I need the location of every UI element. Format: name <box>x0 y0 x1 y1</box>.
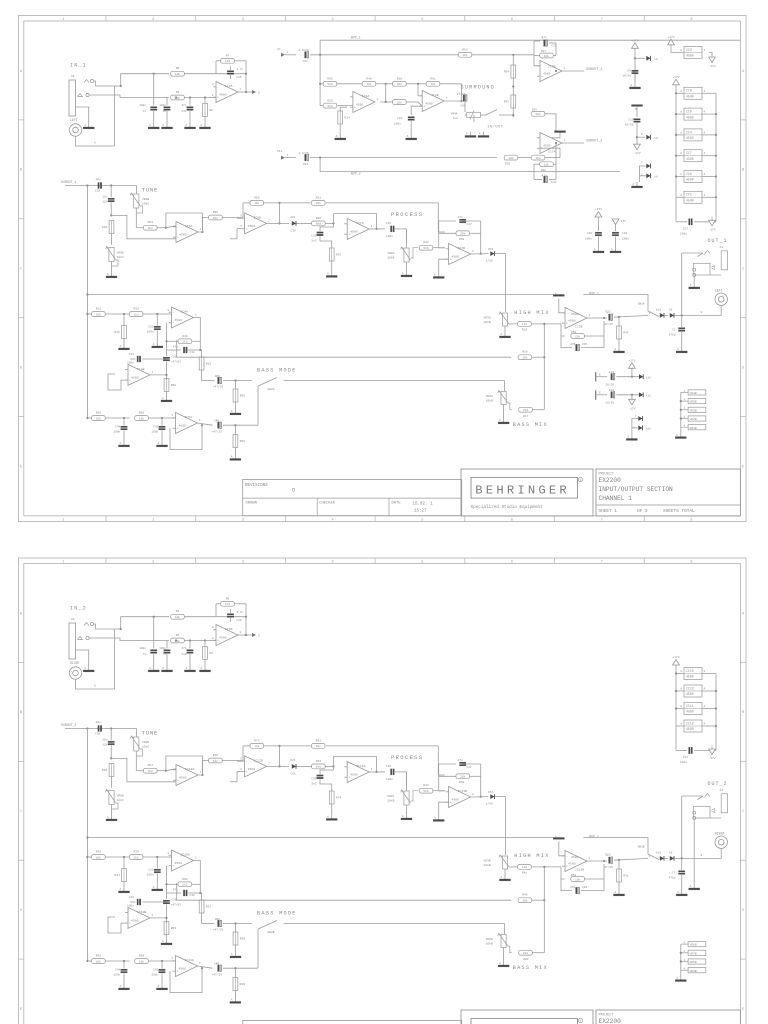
junction C23 <box>631 376 633 378</box>
op-amp IC6A <box>173 222 202 243</box>
svg-text:C39: C39 <box>171 356 176 359</box>
svg-text:4.7n: 4.7n <box>237 68 244 71</box>
ground C44 <box>119 441 130 447</box>
wire long vertical left bus <box>86 729 88 962</box>
wire jack sleeve to ground <box>76 107 89 123</box>
ground decoupling 2 <box>610 247 621 253</box>
ground C43 <box>157 441 168 447</box>
op-amp IC3A <box>212 82 242 103</box>
svg-text:R72: R72 <box>254 739 260 742</box>
junction +17V tap <box>634 57 636 59</box>
power +17V arrow decoupling <box>595 208 602 221</box>
svg-text:4580: 4580 <box>350 230 358 234</box>
potentiometer VR8D <box>131 736 150 771</box>
wire minus riser <box>534 56 540 66</box>
resistor R42 <box>312 739 445 775</box>
svg-text:TUNE: TUNE <box>142 730 158 737</box>
svg-text:X11: X11 <box>646 428 651 431</box>
svg-text:16/50: 16/50 <box>605 382 614 386</box>
svg-text:R28: R28 <box>316 217 322 220</box>
resistor R22 <box>419 241 445 250</box>
resistor R18 <box>518 351 544 360</box>
wire to op-amp minus <box>166 769 176 771</box>
wire op-amp out to R96 <box>198 218 209 233</box>
electrolytic C62 4.7/25 <box>298 48 458 63</box>
svg-text:C7: C7 <box>672 329 676 332</box>
svg-text:VR2B: VR2B <box>690 418 697 421</box>
wire to op-amp plus input <box>111 215 176 238</box>
ground C12 <box>185 666 196 672</box>
label IC5B <box>571 312 583 329</box>
svg-text:VR3A: VR3A <box>484 317 491 320</box>
svg-text:+47/63: +47/63 <box>171 359 182 363</box>
wire IC7B plus to ground <box>439 259 449 272</box>
svg-text:R5: R5 <box>176 634 180 637</box>
svg-text:IC7B: IC7B <box>458 246 466 250</box>
ground R38 <box>230 952 241 958</box>
ground R24 <box>335 134 346 140</box>
wire connector loop <box>76 629 115 689</box>
resistor R2 <box>203 98 213 124</box>
svg-text:R20: R20 <box>505 163 510 166</box>
capacitor C53 100n series <box>386 765 407 785</box>
electrolytic C59 47/25 series <box>202 918 252 932</box>
wire IC5B out <box>587 860 607 862</box>
ground IC5B minus <box>553 293 565 324</box>
svg-text:10kC: 10kC <box>117 798 124 802</box>
wire bass-mode to bass mix <box>284 380 505 382</box>
title block outer box (page 2, partially cut at canvas bottom) <box>461 1010 740 1024</box>
switch SW2B lever <box>258 921 277 935</box>
electrolytic C50 47/25 series <box>202 375 252 389</box>
wire R10 feed <box>87 960 91 962</box>
resistor R24 vertical to ground <box>338 107 350 134</box>
junction feedback2 <box>199 892 201 894</box>
potentiometer VR3B <box>484 855 518 875</box>
svg-text:X11: X11 <box>656 852 661 855</box>
ground VR8C <box>401 814 412 820</box>
svg-text:4580: 4580 <box>686 136 694 140</box>
capacitor C35 3n3 <box>311 223 333 248</box>
svg-text:4580: 4580 <box>543 72 551 76</box>
junction IC4A minus node <box>156 856 158 858</box>
junction IC6B out <box>278 765 280 767</box>
svg-text:470p: 470p <box>669 334 676 337</box>
inverted ground C10 <box>632 105 643 117</box>
feedback capacitor C54 47n <box>439 759 481 791</box>
svg-text:-17V: -17V <box>708 228 715 231</box>
junction R10 row <box>86 960 88 962</box>
svg-text:4580: 4580 <box>179 424 187 428</box>
svg-text:20k: 20k <box>316 201 321 205</box>
electrolytic C10 10/50 <box>625 119 640 138</box>
svg-text:6: 6 <box>258 92 260 95</box>
svg-text:-: - <box>177 768 179 772</box>
capacitor C32 100n <box>394 106 422 134</box>
svg-text:47n: 47n <box>181 104 186 107</box>
svg-text:C27: C27 <box>683 756 688 759</box>
wire IC5A out <box>198 966 213 968</box>
op-amp IC4A <box>167 307 197 328</box>
capacitor C4 470p <box>669 858 685 890</box>
junction IC7B out <box>480 253 482 255</box>
rail bar E2 <box>596 390 601 399</box>
resistor R20 10k <box>504 155 531 165</box>
switch SW1A <box>638 303 659 317</box>
output jack X4 <box>698 789 728 813</box>
trimmer connector VR5B <box>681 959 706 964</box>
junction R2 node <box>204 639 206 641</box>
junction op-amp out <box>201 231 203 233</box>
svg-text:IC7B: IC7B <box>548 65 556 69</box>
junction R11 row <box>86 856 88 858</box>
resistor R31 to ground <box>617 860 629 890</box>
resistor R54 vertical <box>504 55 516 95</box>
svg-text:C44: C44 <box>115 426 120 429</box>
svg-text:6: 6 <box>511 518 513 522</box>
wire output long vertical <box>681 796 683 858</box>
junction input row 1 <box>319 54 321 56</box>
ground VR bus <box>675 433 686 439</box>
svg-text:R32: R32 <box>96 955 102 958</box>
wire C24 to -17V <box>631 395 633 400</box>
capacitor C49 100n series <box>386 222 407 242</box>
wire BVP net <box>583 295 648 312</box>
svg-text:10k: 10k <box>254 744 259 748</box>
svg-text:R50: R50 <box>171 384 177 387</box>
svg-text:10k: 10k <box>544 54 549 58</box>
junction R11 row <box>86 313 88 315</box>
svg-text:10n: 10n <box>102 196 107 199</box>
svg-text:20k: 20k <box>397 82 402 86</box>
svg-text:4580: 4580 <box>350 773 358 777</box>
svg-text:R17: R17 <box>523 415 528 418</box>
wire jack sleeve to ground <box>76 650 89 666</box>
svg-text:R63: R63 <box>148 221 154 224</box>
potentiometer VR2B <box>486 934 512 962</box>
wire mid bus <box>177 883 511 900</box>
svg-text:IC6: IC6 <box>686 172 692 176</box>
svg-text:8: 8 <box>690 518 692 522</box>
wire bass-mode line to pot <box>504 381 506 392</box>
ground C2 <box>148 666 159 672</box>
IC power box IC13 <box>680 685 705 697</box>
resistor R32 <box>92 955 130 964</box>
svg-text:100n: 100n <box>151 431 158 434</box>
junction surout drop <box>86 184 88 186</box>
svg-text:C: C <box>20 810 22 814</box>
resistor R60 <box>135 955 176 964</box>
svg-text:D51: D51 <box>488 248 493 251</box>
svg-text:-: - <box>566 854 568 858</box>
svg-text:100n: 100n <box>113 974 120 977</box>
wire to op-amp minus <box>166 226 176 228</box>
zener pair C61 3V3 <box>290 759 304 776</box>
svg-text:X4: X4 <box>720 789 724 792</box>
svg-text:VR2B: VR2B <box>486 938 493 941</box>
svg-text:4580: 4580 <box>179 776 187 780</box>
wire IC stack left bus <box>675 88 684 222</box>
wire VR bus <box>680 944 682 976</box>
wire jack ring to lower bus <box>89 638 169 641</box>
resistor R20 <box>519 950 545 961</box>
svg-text:IC9: IC9 <box>686 89 692 93</box>
svg-text:CHANNEL 1: CHANNEL 1 <box>599 495 633 502</box>
svg-text:4.7n: 4.7n <box>237 611 244 614</box>
svg-text:VR9B: VR9B <box>117 252 124 255</box>
svg-text:BASS MIX: BASS MIX <box>513 422 548 428</box>
svg-text:+17V: +17V <box>672 76 679 79</box>
potentiometer VR8B <box>131 193 150 228</box>
svg-text:3V3: 3V3 <box>290 216 295 219</box>
svg-text:6k8: 6k8 <box>316 765 321 769</box>
resistor R67 <box>136 764 166 773</box>
svg-text:SUROUT_1: SUROUT_1 <box>61 180 76 184</box>
ground VR4A wiper <box>478 132 489 138</box>
op-amp IC13B <box>446 787 475 808</box>
resistor R94 <box>102 221 114 246</box>
svg-text:5: 5 <box>421 560 423 564</box>
feedback wire IC8B <box>445 84 462 101</box>
off-page arrow input 1 <box>277 48 296 57</box>
svg-text:-: - <box>177 225 179 229</box>
svg-text:IC8A: IC8A <box>362 94 370 98</box>
svg-text:10kC: 10kC <box>117 255 124 259</box>
trimmer connector VR1B <box>681 425 706 430</box>
svg-text:10kB: 10kB <box>387 256 394 260</box>
svg-text:x8: x8 <box>654 58 658 61</box>
wire split up to high mix <box>543 867 545 900</box>
svg-text:BASS MODE: BASS MODE <box>257 911 297 917</box>
svg-text:IC3A: IC3A <box>225 84 233 88</box>
wire IC stack right bus <box>702 93 717 222</box>
op-amp IC6B <box>240 213 270 234</box>
resistor R41 <box>518 865 560 875</box>
resistor R48 <box>518 894 544 903</box>
svg-text:3: 3 <box>242 560 244 564</box>
svg-text:6: 6 <box>511 18 513 22</box>
svg-text:SUROUT_1: SUROUT_1 <box>586 68 602 72</box>
wire op-amp output to off-page <box>238 91 252 93</box>
svg-text:4580: 4580 <box>131 375 139 379</box>
svg-text:PROJECT: PROJECT <box>599 1014 615 1018</box>
capacitor C26 100n series <box>127 353 166 364</box>
svg-text:1k5: 1k5 <box>225 602 230 606</box>
svg-text:47n: 47n <box>181 647 186 650</box>
svg-text:4580: 4580 <box>131 918 139 922</box>
wire split down to bass mix <box>543 357 545 410</box>
junction IC4B node <box>165 374 167 376</box>
svg-text:C36: C36 <box>587 232 592 235</box>
svg-text:C25: C25 <box>148 869 153 872</box>
junction IC5A out <box>201 424 203 426</box>
diode X8H <box>669 852 682 861</box>
page 1 drawing frame with grid reference border <box>18 16 746 523</box>
feedback elco C33 47u <box>534 36 557 55</box>
svg-text:IC11B: IC11B <box>575 868 584 872</box>
feedback resistor R68 2k2 <box>167 866 201 887</box>
svg-text:IC12B: IC12B <box>254 758 263 762</box>
op-amp IC7A <box>344 219 373 240</box>
connector LEFT <box>69 118 81 136</box>
svg-text:IC3B: IC3B <box>225 627 233 631</box>
svg-text:X11: X11 <box>277 150 282 153</box>
svg-text:C44: C44 <box>115 969 120 972</box>
svg-text:R50: R50 <box>327 78 333 81</box>
svg-text:R67: R67 <box>148 764 154 767</box>
capacitor C44 100n <box>113 418 127 441</box>
svg-text:10kC: 10kC <box>142 202 149 206</box>
ground C32 <box>406 134 417 140</box>
svg-text:X1: X1 <box>71 75 75 78</box>
elco D56 47/25 series <box>604 854 648 870</box>
ground mid column <box>630 83 641 89</box>
svg-text:DATE: DATE <box>392 502 402 506</box>
op-amp IC8A <box>350 92 379 113</box>
svg-text:IC6A: IC6A <box>185 224 193 228</box>
junction tune out <box>165 227 167 229</box>
junction IC6B out <box>278 222 280 224</box>
ground R34 <box>119 887 130 893</box>
resistor R21 <box>312 196 445 232</box>
svg-text:-: - <box>177 959 179 963</box>
BEHRINGER logo (page 2, partially cut at canvas bottom) <box>471 1018 583 1024</box>
svg-text:100n: 100n <box>394 123 401 126</box>
svg-text:-: - <box>450 790 452 794</box>
junction C24 <box>631 394 633 396</box>
svg-text:-: - <box>541 64 543 68</box>
IC power box IC7 <box>680 150 705 162</box>
switch SW2A lever <box>258 378 277 392</box>
ground VR4A <box>465 132 476 138</box>
diode pair bottom right <box>632 415 651 435</box>
ground R12 <box>119 344 130 350</box>
resistor R50 to ground <box>164 379 176 397</box>
electrolytic C56 47/25 <box>212 420 259 434</box>
junction R10/R65 <box>123 417 125 419</box>
svg-text:R48: R48 <box>522 894 528 897</box>
junction R54/R53 <box>512 85 514 87</box>
junction mid bus <box>86 836 88 838</box>
svg-text:+47/25: +47/25 <box>213 385 224 389</box>
svg-text:VR9D: VR9D <box>117 795 124 798</box>
resistor R63 <box>136 221 166 230</box>
svg-text:VR7B: VR7B <box>690 952 697 955</box>
resistor R19 <box>518 322 560 332</box>
junction R2 node <box>204 96 206 98</box>
svg-text:4580: 4580 <box>452 255 460 259</box>
junction feedback <box>165 340 167 342</box>
svg-text:IC5A: IC5A <box>185 415 193 419</box>
svg-text:R96: R96 <box>213 211 219 214</box>
svg-text:4580: 4580 <box>452 798 460 802</box>
svg-text:IC8B: IC8B <box>431 93 439 97</box>
resistor R13 <box>129 308 171 317</box>
svg-text:-: - <box>129 368 131 372</box>
svg-text:R21: R21 <box>316 196 322 199</box>
svg-text:R27: R27 <box>541 50 546 53</box>
svg-text:10kC: 10kC <box>142 745 149 749</box>
wire to output net <box>562 70 584 72</box>
svg-text:4580: 4580 <box>175 318 183 322</box>
svg-text:C2: C2 <box>143 653 147 656</box>
svg-text:4580: 4580 <box>175 861 183 865</box>
svg-text:R74: R74 <box>336 797 342 800</box>
svg-text:-: - <box>450 247 452 251</box>
svg-text:10kB: 10kB <box>486 942 493 946</box>
resistor R96 <box>209 203 243 220</box>
resistor R5 <box>171 634 185 643</box>
feedback capacitor C42 47n <box>167 341 201 356</box>
op-amp IC10A <box>167 850 197 871</box>
feedback resistor R46 <box>439 764 481 797</box>
ground R3 <box>200 666 211 672</box>
svg-text:PROCESS: PROCESS <box>391 212 423 218</box>
resistor R23 5k6 <box>320 99 353 108</box>
wire BVP_1 top bus <box>320 40 740 86</box>
svg-text:100n: 100n <box>147 874 154 877</box>
svg-text:C12: C12 <box>181 653 186 656</box>
svg-text:4580: 4580 <box>686 178 694 182</box>
wire BVP_2 bus <box>320 158 620 172</box>
resistor R65 <box>135 412 176 421</box>
svg-text:IC12: IC12 <box>686 721 694 725</box>
junction R56 node <box>234 424 236 426</box>
wire to op-amp plus input <box>111 758 176 781</box>
svg-text:R34: R34 <box>114 874 120 877</box>
svg-text:4: 4 <box>332 560 334 564</box>
wire IC4B loop <box>108 374 128 390</box>
junction tune out <box>165 770 167 772</box>
wire process out down to mixes <box>505 797 507 849</box>
junction out net <box>555 70 557 72</box>
wire IC8A out to R25 <box>386 101 393 103</box>
ground R57 <box>326 272 337 278</box>
svg-text:R13: R13 <box>133 308 139 311</box>
svg-text:C49: C49 <box>386 222 391 225</box>
svg-text:IC13: IC13 <box>686 686 694 690</box>
capacitor C38 100n <box>151 961 165 984</box>
svg-text:X11: X11 <box>646 376 651 379</box>
svg-text:R55: R55 <box>240 395 246 398</box>
junction C-row 1 <box>153 73 155 75</box>
capacitor C36 100n decoupling <box>585 221 602 248</box>
svg-text:4580: 4580 <box>686 675 694 679</box>
wire surout bus <box>65 185 137 187</box>
wire to output net 2 <box>562 142 584 144</box>
svg-text:+47/25: +47/25 <box>212 973 223 977</box>
capacitor C2 100n <box>139 617 157 666</box>
wire bass-mode line to pot <box>504 924 506 935</box>
svg-text:1: 1 <box>62 560 64 564</box>
svg-text:1k5: 1k5 <box>225 59 230 63</box>
resistor R59 10k <box>531 155 560 160</box>
resistor R57 to ground <box>329 248 341 272</box>
svg-text:C26: C26 <box>129 896 134 899</box>
svg-text:10k: 10k <box>535 112 540 116</box>
svg-text:-: - <box>348 765 350 769</box>
svg-text:R43: R43 <box>316 760 322 763</box>
resistor R28 <box>304 217 334 226</box>
svg-text:10k: 10k <box>96 855 101 859</box>
electrolytic C24 16/50 <box>596 389 639 404</box>
svg-text:-: - <box>246 216 248 220</box>
svg-text:-: - <box>246 759 248 763</box>
svg-text:R53: R53 <box>504 101 510 104</box>
feedback resistor R30 bottom <box>534 143 556 179</box>
resistor R47 to ground <box>617 317 629 347</box>
svg-text:2k2: 2k2 <box>523 408 528 412</box>
